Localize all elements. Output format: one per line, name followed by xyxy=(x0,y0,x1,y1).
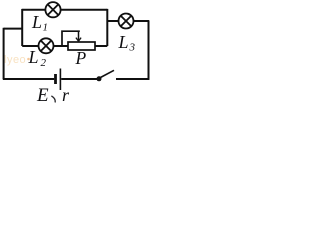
background xyxy=(0,0,151,105)
rheostat slider wire xyxy=(62,31,80,46)
wire: bottom branch right segment xyxy=(95,45,107,47)
svg-text:E: E xyxy=(36,85,49,105)
wire: inner-left vertical (parallel junction) xyxy=(21,9,23,46)
lamp L2 xyxy=(39,38,54,53)
battery negative plate (short thick) xyxy=(54,74,57,84)
svg-text:3: 3 xyxy=(129,42,136,54)
battery positive plate (long thin) xyxy=(59,69,61,91)
svg-text:P: P xyxy=(75,48,87,68)
svg-text:lyeo: lyeo xyxy=(4,54,26,66)
switch pivot dot xyxy=(97,76,102,81)
wire: L3 left segment xyxy=(107,20,118,22)
wire: outer-left vertical xyxy=(3,28,5,79)
svg-text:2: 2 xyxy=(41,57,47,69)
lamp L1 xyxy=(45,2,60,17)
wire: inner-right vertical xyxy=(106,9,108,46)
svg-text:L: L xyxy=(31,12,42,32)
wire: bottom edge right (switch to corner) xyxy=(116,78,149,80)
wire: outer-right vertical xyxy=(148,21,150,80)
wire: left stub xyxy=(4,28,23,30)
wire: bottom edge middle (battery to switch) xyxy=(61,78,97,80)
lamp L3 xyxy=(119,14,134,29)
wire: bottom branch left segment xyxy=(22,45,38,47)
wire: bottom edge left (to battery) xyxy=(3,78,54,80)
wire: top branch right segment xyxy=(61,9,108,11)
svg-text:r: r xyxy=(62,85,70,105)
enumeration comma xyxy=(52,96,55,102)
switch blade xyxy=(100,70,115,78)
wire: top branch left segment xyxy=(22,9,45,11)
rheostat P box xyxy=(68,42,95,50)
svg-text:L: L xyxy=(28,47,39,67)
rheostat slider arrow xyxy=(78,31,80,41)
wire: bottom branch middle segment xyxy=(53,45,68,47)
svg-text:L: L xyxy=(118,32,129,52)
wire: L3 right segment xyxy=(134,20,150,22)
svg-text:1: 1 xyxy=(43,22,49,34)
